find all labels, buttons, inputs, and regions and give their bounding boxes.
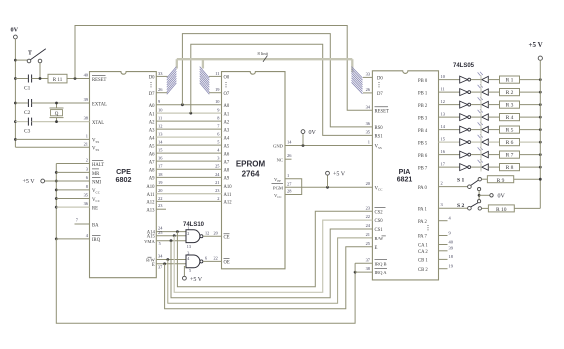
svg-text:A4: A4 (224, 136, 230, 141)
svg-text:22: 22 (214, 256, 218, 261)
svg-text:A5: A5 (149, 144, 155, 149)
svg-text:5: 5 (159, 241, 161, 246)
svg-text:0V: 0V (309, 130, 317, 136)
svg-text:A6: A6 (149, 152, 155, 157)
svg-text:CA 1: CA 1 (418, 244, 428, 249)
svg-text:D7: D7 (377, 92, 383, 97)
svg-text:CE: CE (224, 235, 230, 240)
svg-text:VMA: VMA (144, 239, 155, 244)
svg-text:R/W: R/W (146, 257, 155, 262)
svg-text:GND: GND (273, 144, 284, 149)
svg-text:S 2: S 2 (457, 203, 465, 209)
svg-text:VSS: VSS (92, 147, 99, 152)
svg-text:RS1: RS1 (375, 135, 384, 140)
svg-text:A5: A5 (224, 144, 230, 149)
svg-text:A9: A9 (149, 177, 155, 182)
svg-text:A11: A11 (147, 193, 156, 198)
svg-text:A7: A7 (149, 160, 155, 165)
svg-text:A0: A0 (149, 104, 155, 109)
svg-text:C2: C2 (24, 110, 31, 116)
svg-text:A2: A2 (149, 120, 155, 125)
svg-text:A1: A1 (224, 112, 230, 117)
svg-text:8 linij: 8 linij (258, 51, 269, 56)
svg-text:A11: A11 (224, 193, 233, 198)
svg-text:D0: D0 (377, 77, 383, 82)
svg-text:2764: 2764 (242, 170, 260, 179)
svg-text:E: E (375, 246, 378, 251)
svg-text:C1: C1 (24, 86, 31, 92)
svg-text:HALT: HALT (92, 163, 104, 168)
svg-text:21: 21 (215, 180, 219, 185)
svg-text:2: 2 (86, 158, 88, 163)
svg-text:IRQ: IRQ (92, 238, 101, 243)
svg-text:2: 2 (441, 181, 443, 186)
svg-text:0V: 0V (11, 27, 19, 34)
svg-text:NC: NC (277, 157, 283, 162)
svg-text:CB 2: CB 2 (418, 268, 428, 273)
svg-text:CS1: CS1 (375, 228, 384, 233)
svg-text:+5 V: +5 V (23, 179, 36, 185)
svg-text:VSS: VSS (92, 139, 99, 144)
svg-text:OE: OE (224, 261, 230, 266)
svg-text:3: 3 (187, 251, 189, 256)
svg-text:A10: A10 (146, 185, 155, 190)
svg-text:PB 2: PB 2 (418, 104, 428, 109)
svg-text:RS0: RS0 (375, 126, 384, 131)
svg-text:21: 21 (84, 141, 88, 146)
svg-text:R 10: R 10 (496, 207, 507, 213)
svg-text:Q: Q (55, 112, 59, 117)
svg-text:A12: A12 (224, 201, 233, 206)
svg-text:CS0: CS0 (375, 219, 384, 224)
svg-text:NMI: NMI (92, 180, 102, 185)
svg-text:5: 5 (189, 268, 191, 273)
svg-text:12: 12 (158, 124, 162, 129)
svg-text:EPROM: EPROM (236, 160, 266, 169)
svg-text:R 11: R 11 (53, 78, 63, 83)
svg-text:PB 0: PB 0 (418, 79, 428, 84)
svg-text:S 1: S 1 (457, 178, 465, 184)
svg-text:VCC: VCC (92, 198, 101, 203)
svg-text:RESET: RESET (92, 78, 106, 83)
svg-text:A3: A3 (149, 128, 155, 133)
svg-text:R 9: R 9 (497, 178, 505, 184)
svg-text:PB 1: PB 1 (418, 91, 428, 96)
svg-text:PA 0: PA 0 (418, 186, 427, 191)
svg-text:R 3: R 3 (506, 103, 514, 109)
svg-text:1: 1 (368, 140, 370, 145)
svg-text:PB 4: PB 4 (418, 129, 428, 134)
svg-text:12: 12 (205, 230, 209, 235)
svg-text:A13: A13 (146, 208, 155, 213)
svg-text:A2: A2 (224, 120, 230, 125)
svg-text:VSS: VSS (375, 145, 382, 150)
svg-text:R 2: R 2 (506, 90, 514, 96)
svg-text:R 8: R 8 (506, 165, 514, 171)
svg-text:1: 1 (287, 173, 289, 178)
svg-text:R/W: R/W (375, 236, 384, 241)
svg-text:VCC: VCC (92, 189, 101, 194)
svg-text:R 4: R 4 (506, 115, 514, 121)
svg-text:6821: 6821 (397, 177, 413, 184)
svg-text:2: 2 (217, 196, 219, 201)
svg-text:6: 6 (205, 256, 207, 261)
svg-text:PB 6: PB 6 (418, 154, 428, 159)
svg-text:D7: D7 (149, 92, 155, 97)
svg-text:RE: RE (92, 206, 98, 211)
svg-text:IRQ B: IRQ B (375, 261, 387, 266)
svg-text:A1: A1 (149, 112, 155, 117)
svg-text:R 5: R 5 (506, 128, 514, 134)
svg-text:20: 20 (214, 230, 218, 235)
svg-text:CA 2: CA 2 (418, 250, 428, 255)
svg-text:13: 13 (187, 244, 191, 249)
svg-text:IRQ A: IRQ A (375, 270, 388, 275)
svg-text:37: 37 (158, 265, 162, 270)
svg-text:PB 7: PB 7 (418, 166, 428, 171)
svg-text:1: 1 (187, 225, 189, 230)
svg-text:CB 1: CB 1 (418, 259, 428, 264)
svg-text:PIA: PIA (399, 169, 411, 176)
svg-text:PA 1: PA 1 (418, 207, 427, 212)
svg-text:11: 11 (441, 87, 445, 92)
svg-text:PGM: PGM (273, 186, 283, 191)
svg-text:1: 1 (86, 133, 88, 138)
svg-text:CS2: CS2 (375, 210, 384, 215)
svg-text:A3: A3 (224, 128, 230, 133)
svg-text:VCC: VCC (375, 186, 384, 191)
svg-text:PA 7: PA 7 (418, 235, 427, 240)
svg-text:A4: A4 (149, 136, 155, 141)
svg-text:PB 5: PB 5 (418, 141, 428, 146)
svg-text:A8: A8 (149, 169, 155, 174)
svg-text:RESET: RESET (375, 110, 389, 115)
svg-text:+5 V: +5 V (190, 277, 203, 283)
svg-text:A8: A8 (224, 169, 230, 174)
svg-text:11: 11 (158, 116, 162, 121)
svg-text:74LS10: 74LS10 (183, 222, 205, 228)
svg-text:O7: O7 (224, 92, 230, 97)
svg-text:A12: A12 (146, 201, 155, 206)
svg-text:12: 12 (441, 99, 445, 104)
svg-text:R 1: R 1 (506, 78, 514, 84)
svg-text:21: 21 (366, 232, 370, 237)
svg-text:E: E (152, 263, 155, 268)
svg-text:C3: C3 (24, 129, 31, 135)
svg-text:PA 2: PA 2 (418, 220, 427, 225)
svg-text:PB 3: PB 3 (418, 116, 428, 121)
svg-text:A6: A6 (224, 152, 230, 157)
svg-text:A9: A9 (224, 177, 230, 182)
svg-text:22: 22 (366, 214, 370, 219)
svg-text:O0: O0 (224, 76, 230, 81)
svg-text:11: 11 (215, 71, 219, 76)
svg-text:D0: D0 (149, 76, 155, 81)
svg-text:2: 2 (187, 231, 189, 236)
svg-text:74LS05: 74LS05 (453, 63, 475, 69)
svg-text:T: T (28, 51, 32, 57)
svg-text:6802: 6802 (116, 175, 132, 184)
svg-text:22: 22 (158, 196, 162, 201)
svg-text:R 7: R 7 (506, 153, 514, 159)
svg-text:0V: 0V (498, 194, 506, 200)
svg-text:MR: MR (92, 172, 100, 177)
svg-text:R 6: R 6 (506, 140, 514, 146)
svg-text:XTAL: XTAL (92, 121, 104, 126)
svg-text:A0: A0 (224, 104, 230, 109)
svg-text:A7: A7 (224, 160, 230, 165)
svg-text:BA: BA (92, 223, 99, 228)
svg-text:+5 V: +5 V (529, 41, 543, 49)
svg-text:+5 V: +5 V (333, 172, 346, 178)
svg-text:A10: A10 (224, 185, 233, 190)
svg-text:EXTAL: EXTAL (92, 102, 107, 107)
